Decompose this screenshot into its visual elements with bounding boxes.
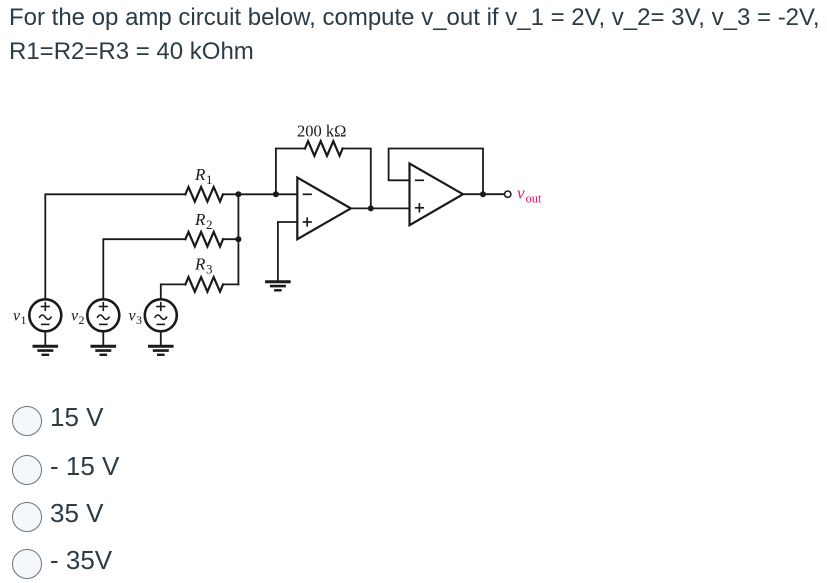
- svg-text:R: R: [194, 255, 206, 274]
- op-amp U1: [297, 178, 351, 240]
- wire: v3 to ground: [160, 331, 162, 346]
- svg-text:200 kΩ: 200 kΩ: [297, 122, 346, 141]
- node B (feedback tap): [273, 191, 279, 197]
- svg-text:1: 1: [206, 172, 213, 187]
- wire: feedback right down to op1 output: [343, 149, 371, 209]
- source v2: [87, 299, 119, 331]
- node A (summing node): [235, 191, 241, 197]
- wire: op2 feedback loop: [389, 149, 483, 195]
- svg-text:1: 1: [21, 313, 27, 327]
- svg-text:out: out: [526, 192, 543, 206]
- label R3: [194, 255, 213, 277]
- svg-text:2: 2: [79, 313, 85, 327]
- ground (v3): [148, 346, 174, 355]
- op-amp U2: [410, 164, 464, 226]
- label v2: [71, 308, 85, 328]
- wire: feedback left riser: [276, 149, 305, 195]
- label R2: [194, 210, 213, 232]
- label 200 kOhm: [297, 122, 346, 141]
- wire: v2 up to R2 row: [103, 239, 185, 299]
- svg-text:v: v: [517, 184, 525, 203]
- ground (op1 +): [265, 282, 291, 291]
- node E (op2 output): [480, 191, 486, 197]
- label vout: [517, 184, 542, 206]
- wire: v1 up to R1 row: [45, 194, 185, 299]
- wire: R3 to vertical bus: [223, 283, 238, 285]
- label R1: [194, 165, 213, 187]
- resistor R1: [185, 187, 223, 202]
- wire: v1 to ground: [44, 331, 46, 346]
- wire: R1 to node: [223, 193, 297, 195]
- svg-text:2: 2: [206, 217, 213, 232]
- ground (v2): [91, 346, 117, 355]
- svg-text:R: R: [194, 210, 206, 229]
- wire: op1 plus input to ground: [278, 222, 297, 282]
- wire: vertical bus node A to R3 row: [237, 194, 239, 284]
- svg-text:R: R: [194, 165, 206, 184]
- label v1: [13, 308, 27, 328]
- svg-text:3: 3: [206, 262, 213, 277]
- terminal vout: [505, 191, 511, 197]
- wire: R2 to vertical bus: [223, 238, 238, 240]
- label v3: [129, 308, 143, 328]
- resistor R2: [185, 232, 223, 247]
- resistor R3: [185, 277, 223, 292]
- source v1: [29, 299, 61, 331]
- node D (op1 output): [368, 205, 374, 211]
- wire: op1 output to op2 plus: [351, 207, 410, 209]
- resistor 200 kOhm (feedback): [305, 141, 343, 156]
- ground (v1): [33, 346, 59, 355]
- node C (R2 junction): [235, 236, 241, 242]
- wire: v2 to ground: [102, 331, 104, 346]
- svg-text:3: 3: [136, 313, 142, 327]
- wire: v3 up to R3 row: [161, 284, 186, 299]
- wire: op2 output: [463, 193, 504, 195]
- source v3: [145, 299, 177, 331]
- answer options: [12, 406, 42, 436]
